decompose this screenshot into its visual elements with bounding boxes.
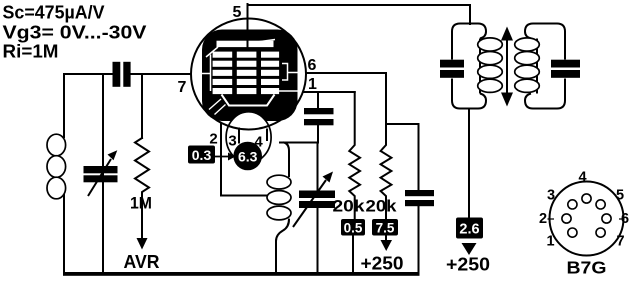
svg-text:0.5: 0.5 xyxy=(344,221,363,236)
svg-text:+250: +250 xyxy=(361,254,404,274)
svg-text:1: 1 xyxy=(308,76,317,93)
svg-text:2.6: 2.6 xyxy=(459,222,479,238)
svg-text:1M: 1M xyxy=(130,194,152,213)
svg-text:Ri=1M: Ri=1M xyxy=(3,42,59,62)
svg-text:2: 2 xyxy=(209,131,217,148)
svg-text:6: 6 xyxy=(621,211,629,227)
svg-text:7.5: 7.5 xyxy=(376,221,395,236)
svg-text:Sc=475µA/V: Sc=475µA/V xyxy=(3,3,105,23)
svg-text:3: 3 xyxy=(228,133,236,150)
svg-text:6.3: 6.3 xyxy=(238,149,258,165)
svg-text:20k: 20k xyxy=(366,198,398,216)
svg-text:7: 7 xyxy=(178,79,187,96)
svg-text:1: 1 xyxy=(546,234,554,250)
svg-text:7: 7 xyxy=(616,234,624,250)
svg-text:B7G: B7G xyxy=(567,258,607,278)
svg-text:4: 4 xyxy=(578,170,586,186)
svg-text:4: 4 xyxy=(254,134,263,151)
svg-text:5: 5 xyxy=(233,4,242,21)
svg-text:+250: +250 xyxy=(446,255,490,275)
svg-text:3: 3 xyxy=(547,188,555,204)
svg-text:Vg3= 0V...-30V: Vg3= 0V...-30V xyxy=(3,23,147,43)
svg-text:2: 2 xyxy=(539,211,547,227)
svg-text:0.3: 0.3 xyxy=(192,147,212,163)
svg-text:5: 5 xyxy=(616,188,624,204)
svg-text:AVR: AVR xyxy=(124,251,160,272)
svg-text:6: 6 xyxy=(308,57,317,74)
svg-text:20k: 20k xyxy=(333,198,366,216)
